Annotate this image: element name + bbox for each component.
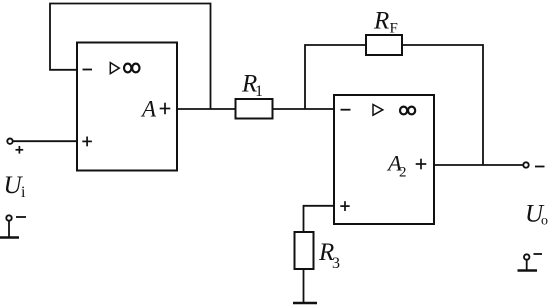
wire R3 to ground — [303, 269, 305, 303]
op-amp A1 output label + — [160, 103, 171, 115]
op-amp A1 gain triangle — [110, 63, 119, 74]
wire A2 noninverting input to R3 — [304, 206, 335, 232]
output lower terminal — [524, 254, 529, 259]
svg-text:3: 3 — [332, 255, 340, 272]
output terminal — [523, 162, 528, 167]
op-amp A1 output label A — [140, 97, 157, 122]
op-amp A2 infinity symbol — [400, 107, 415, 115]
svg-text:o: o — [541, 214, 548, 229]
R3 ground — [293, 302, 317, 304]
input lower terminal - sign — [16, 216, 26, 218]
op-amp A2 inverting input label - — [341, 109, 351, 111]
output terminal - sign — [535, 166, 545, 168]
op-amp A2 body — [334, 95, 434, 224]
wire junction up to RF (left branch) — [305, 45, 366, 109]
label R1 — [241, 71, 263, 100]
input lower terminal — [6, 215, 11, 220]
resistor R1 — [236, 99, 273, 119]
svg-text:A: A — [140, 97, 157, 122]
input ground — [0, 221, 19, 238]
svg-text:i: i — [21, 184, 26, 201]
label R3 — [318, 239, 340, 272]
svg-text:F: F — [390, 21, 398, 37]
output ground — [518, 260, 538, 271]
op-amp A1 inverting input label - — [83, 69, 93, 71]
output lower terminal - sign — [534, 253, 543, 255]
wire A1 output to R1 — [177, 108, 236, 110]
wire input terminal to A1 noninverting input — [13, 140, 77, 142]
op-amp A2 gain triangle — [373, 105, 383, 116]
op-amp A1 noninverting input label + — [82, 137, 92, 147]
svg-text:1: 1 — [255, 83, 263, 100]
label RF — [373, 8, 398, 37]
label Ui — [4, 172, 27, 201]
wire A2 output to output terminal — [434, 164, 523, 166]
wire A1 feedback loop (output to inverting input) — [50, 4, 211, 110]
svg-text:2: 2 — [399, 165, 407, 181]
input terminal + — [7, 139, 12, 144]
wire RF to A2 output node — [402, 45, 483, 165]
input terminal + sign — [16, 146, 24, 154]
op-amp A2 noninverting input label + — [340, 201, 349, 211]
wire R1 to A2 inverting input — [273, 108, 335, 110]
label Uo — [525, 201, 548, 229]
op-amp A2 output label + — [416, 159, 427, 170]
svg-text:R: R — [373, 8, 389, 35]
op-amp A2 output label A2 — [386, 151, 407, 181]
op-amp A1 body — [77, 43, 177, 171]
resistor R3 — [295, 232, 314, 269]
resistor RF — [366, 35, 402, 55]
op-amp A1 infinity symbol — [124, 64, 140, 73]
